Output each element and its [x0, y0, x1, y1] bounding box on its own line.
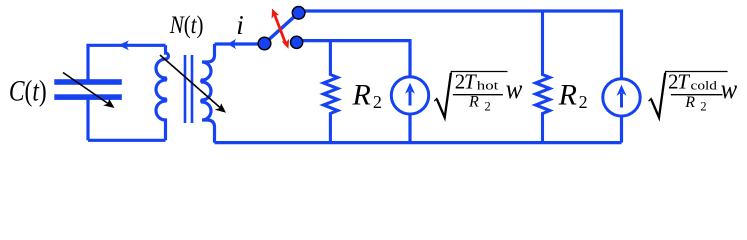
current arrow i on pole wire	[228, 39, 237, 49]
svg-text:2: 2	[373, 92, 382, 112]
sqrt(2T_hot/R2) w label	[434, 70, 522, 118]
capacitor C(t) bottom plate	[54, 94, 122, 100]
svg-text:C(t): C(t)	[9, 74, 47, 107]
wire bottom bus	[215, 141, 622, 144]
svg-text:T: T	[464, 70, 477, 94]
svg-text:w: w	[721, 74, 738, 104]
sqrt(2T_cold/R2) w label	[649, 70, 738, 118]
switch pole contact	[258, 37, 271, 50]
transformer variable arrow	[160, 55, 226, 113]
svg-text:R: R	[558, 79, 577, 112]
svg-text:N(t): N(t)	[169, 10, 204, 39]
svg-text:w: w	[506, 74, 523, 104]
radical sign hot	[434, 72, 507, 119]
svg-text:2: 2	[700, 100, 706, 114]
switch upper throw contact	[292, 7, 305, 20]
wire below cold source	[620, 116, 623, 142]
switch blade SW1	[265, 13, 299, 44]
current source I_cold arrow	[617, 85, 627, 108]
svg-text:T: T	[677, 70, 690, 94]
svg-text:2: 2	[485, 99, 491, 113]
svg-text:R: R	[684, 94, 695, 111]
wire lower throw to hot source	[303, 41, 411, 77]
svg-text:cold: cold	[691, 78, 718, 92]
wire capacitor bottom lead	[86, 97, 89, 140]
wire below hot source	[408, 114, 411, 142]
wire left loop bottom	[88, 139, 166, 142]
svg-text:i: i	[236, 10, 244, 40]
switch lower throw contact	[291, 36, 303, 48]
transformer core line 1	[184, 55, 187, 123]
current arrow on left loop top wire	[119, 40, 129, 50]
svg-text:2: 2	[579, 92, 588, 112]
capacitor variable arrow	[63, 73, 115, 109]
svg-text:R: R	[468, 94, 479, 111]
wire secondary top to switch pole	[215, 42, 259, 45]
fraction bar cold	[671, 94, 723, 96]
current source I_hot circle	[391, 77, 428, 114]
current source I_hot arrow	[405, 83, 415, 106]
fraction bar hot	[453, 94, 503, 96]
switch toggle red arrow	[272, 9, 290, 49]
current source I_cold circle	[603, 79, 640, 116]
transformer core line 2	[191, 55, 194, 123]
resistor R2 left	[324, 41, 338, 143]
wire top bus from switch upper throw	[304, 11, 622, 79]
radical sign cold	[649, 72, 728, 119]
capacitor C(t) top plate	[54, 79, 122, 85]
inductor L2 secondary winding of transformer	[202, 44, 215, 143]
svg-text:R: R	[352, 79, 371, 112]
inductor L1 primary winding of transformer	[156, 45, 169, 140]
svg-text:hot: hot	[477, 78, 499, 92]
wire left loop top (capacitor to primary)	[88, 45, 166, 82]
resistor R2 right	[536, 11, 550, 143]
